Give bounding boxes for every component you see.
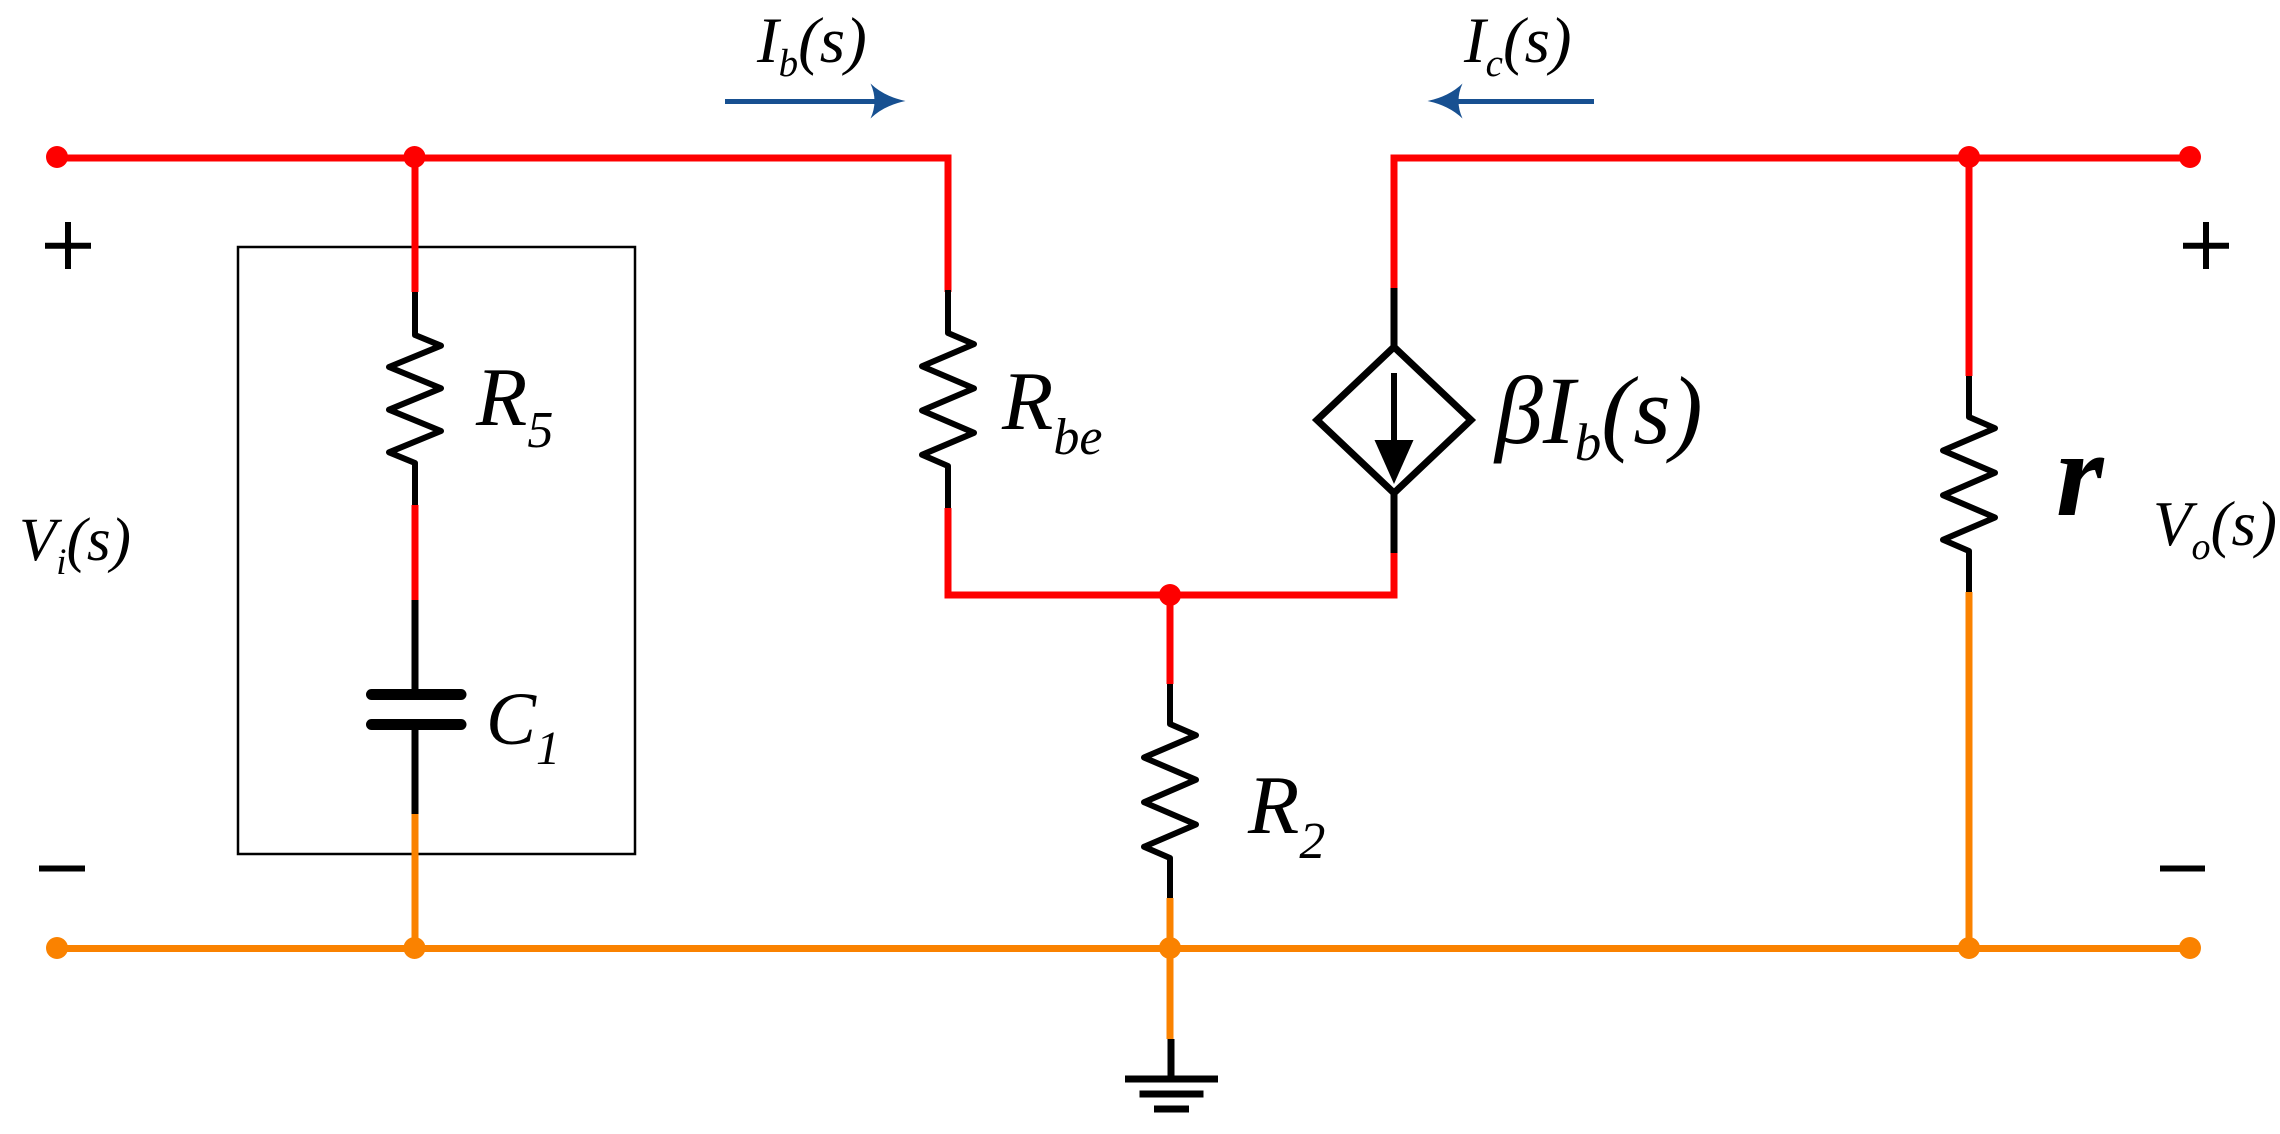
svg-text:Ib(s): Ib(s) — [756, 5, 867, 85]
svg-text:Ic(s): Ic(s) — [1463, 5, 1572, 85]
svg-text:Vi(s): Vi(s) — [19, 507, 131, 583]
svg-text:r: r — [2056, 407, 2105, 542]
svg-text:Vo(s): Vo(s) — [2153, 489, 2277, 568]
